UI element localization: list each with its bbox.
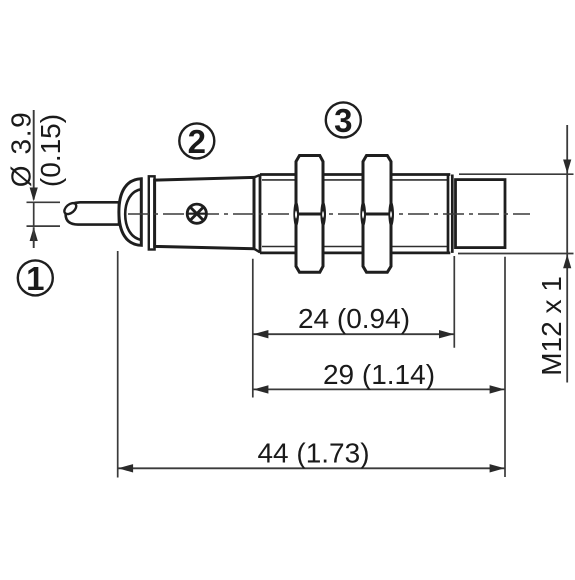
callout 2 xyxy=(179,123,214,158)
cable gland dome xyxy=(119,179,141,246)
svg-text:3: 3 xyxy=(334,102,352,139)
dia extension ticks xyxy=(27,202,61,226)
thread outer lines xyxy=(260,175,450,253)
nut2 right facet spindle xyxy=(388,199,394,229)
svg-text:24 (0.94): 24 (0.94) xyxy=(298,303,410,334)
nut2 left facet spindle xyxy=(360,199,366,229)
sensing face xyxy=(456,180,506,248)
dia arrow down xyxy=(30,188,38,202)
M12 arrow down xyxy=(563,160,571,174)
24 right extension xyxy=(453,256,455,348)
thread root lines xyxy=(262,180,447,247)
svg-text:1: 1 xyxy=(26,260,44,297)
svg-text:44 (1.73): 44 (1.73) xyxy=(257,438,369,469)
svg-text:29 (1.14): 29 (1.14) xyxy=(323,359,435,390)
neck line xyxy=(259,175,262,253)
callout 1 xyxy=(18,260,53,295)
nut1 right facet spindle xyxy=(320,199,326,229)
24/29 shared left extension xyxy=(252,259,254,398)
svg-text:2: 2 xyxy=(188,123,206,160)
neck chamfer xyxy=(254,175,260,253)
LED indicator xyxy=(187,204,206,223)
nut2 facet midline xyxy=(365,213,390,216)
gland flange xyxy=(149,176,155,249)
M12 dimension line xyxy=(566,125,568,383)
nut1 left facet spindle xyxy=(293,199,299,229)
hex nut 2 xyxy=(363,156,391,273)
gland inner arc xyxy=(125,189,142,240)
cable xyxy=(66,202,119,224)
thread end double line xyxy=(448,175,452,253)
svg-text:Ø 3.9: Ø 3.9 xyxy=(5,111,36,187)
nut1 facet midline xyxy=(298,213,322,216)
callout 3 xyxy=(326,102,361,137)
24 dimension line xyxy=(253,333,454,335)
cable cut face loop xyxy=(62,201,78,216)
dia 3.9 dimension line xyxy=(33,110,35,200)
sensor body xyxy=(155,177,254,248)
dia arrow up xyxy=(30,227,38,241)
svg-text:M12 x 1: M12 x 1 xyxy=(536,276,567,376)
M12 extension lines xyxy=(458,174,574,253)
centerline xyxy=(128,213,530,215)
29 dimension line xyxy=(253,388,504,390)
hex nut 1 xyxy=(296,156,323,273)
29/44 shared right extension xyxy=(504,257,506,477)
M12 arrow up xyxy=(563,254,571,268)
44 left extension xyxy=(117,251,119,478)
svg-text:(0.15): (0.15) xyxy=(35,114,66,187)
44 dimension line xyxy=(118,467,505,469)
